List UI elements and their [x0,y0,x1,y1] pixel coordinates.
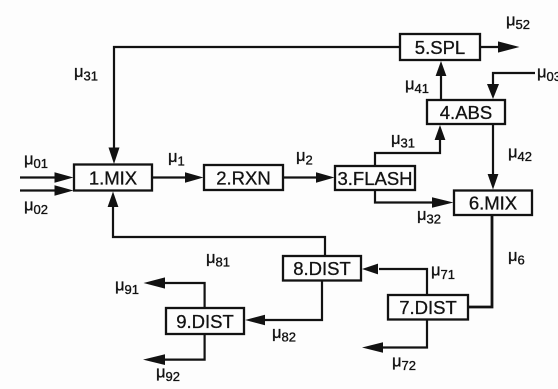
label mu71 [431,262,455,283]
label mu1 [168,148,185,169]
wire mu82 8.DIST to 9.DIST [245,281,322,325]
stream mu1 arrow 1.MIX to 2.RXN [152,172,204,182]
wire mu32 3.FLASH to 6.MIX [375,190,454,208]
block 8.DIST [283,256,361,281]
svg-text:8.DIST: 8.DIST [293,258,351,279]
block 3.FLASH [335,166,415,190]
label mu82 [272,324,296,345]
label mu92 [156,364,180,385]
svg-text:3.FLASH: 3.FLASH [337,168,412,189]
label mu91 [115,277,139,298]
svg-text:1.MIX: 1.MIX [89,168,137,189]
wire mu6 6.MIX to 7.DIST [468,215,492,307]
stream mu2 arrow 2.RXN to 3.FLASH [283,172,335,182]
wire mu81 8.DIST to 1.MIX [108,192,325,257]
label mu01 [24,151,48,172]
stream mu72 arrow out of 7.DIST [362,320,427,353]
label mu02 [24,197,48,218]
block 1.MIX [74,165,152,191]
block 9.DIST [166,308,244,334]
block 5.SPL [400,34,480,60]
stream mu02 arrow into 1.MIX [20,185,74,195]
label mu6 [508,247,525,268]
label mu52 [506,12,530,33]
stream mu42 4.ABS to 6.MIX [488,124,499,190]
svg-text:4.ABS: 4.ABS [440,102,492,123]
wire mu31 3.FLASH to 4.ABS [375,125,445,166]
wire mu71 7.DIST to 8.DIST [362,264,427,295]
block 7.DIST [388,295,468,320]
svg-text:5.SPL: 5.SPL [415,37,465,58]
label mu2 [296,147,313,168]
label mu31 right [391,130,415,151]
stream mu92 arrow out of 9.DIST [143,334,205,365]
stream mu01 arrow into 1.MIX [20,172,74,182]
svg-text:6.MIX: 6.MIX [469,193,517,214]
label mu41 [405,76,429,97]
stream mu91 arrow out of 9.DIST [144,277,205,308]
label mu42 [508,144,532,165]
label mu81 [206,249,230,270]
stream mu41 4.ABS to 5.SPL [436,61,447,100]
label mu03 [537,64,558,85]
svg-text:2.RXN: 2.RXN [216,168,271,189]
block 4.ABS [427,100,505,124]
label mu31 upper-left [74,63,98,84]
label mu32 [417,206,441,227]
label mu72 [392,353,416,374]
block 2.RXN [204,165,283,190]
svg-text:9.DIST: 9.DIST [176,311,234,332]
wire recycle 5.SPL to 1.MIX (stream mu31) [109,47,401,164]
stream mu52 arrow out of 5.SPL [480,41,520,52]
svg-text:7.DIST: 7.DIST [399,297,457,318]
stream mu03 arrow into 4.ABS [487,73,535,99]
block 6.MIX [454,191,532,216]
